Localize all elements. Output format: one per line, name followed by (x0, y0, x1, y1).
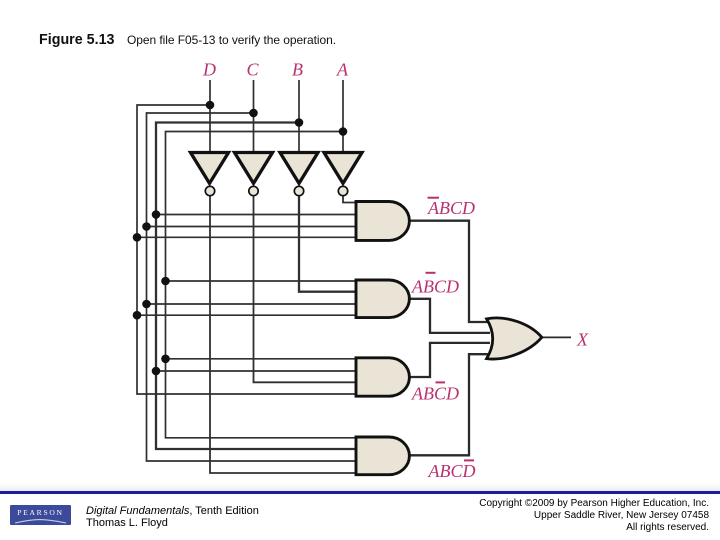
svg-text:C: C (247, 60, 260, 80)
svg-text:ABCD: ABCD (428, 461, 476, 481)
svg-text:ABCD: ABCD (411, 277, 459, 297)
svg-text:B: B (292, 60, 303, 80)
svg-text:D: D (202, 60, 216, 80)
svg-text:ABCD: ABCD (427, 198, 475, 218)
svg-text:ABCD: ABCD (411, 384, 459, 404)
svg-text:X: X (576, 330, 589, 350)
svg-text:A: A (336, 60, 349, 80)
